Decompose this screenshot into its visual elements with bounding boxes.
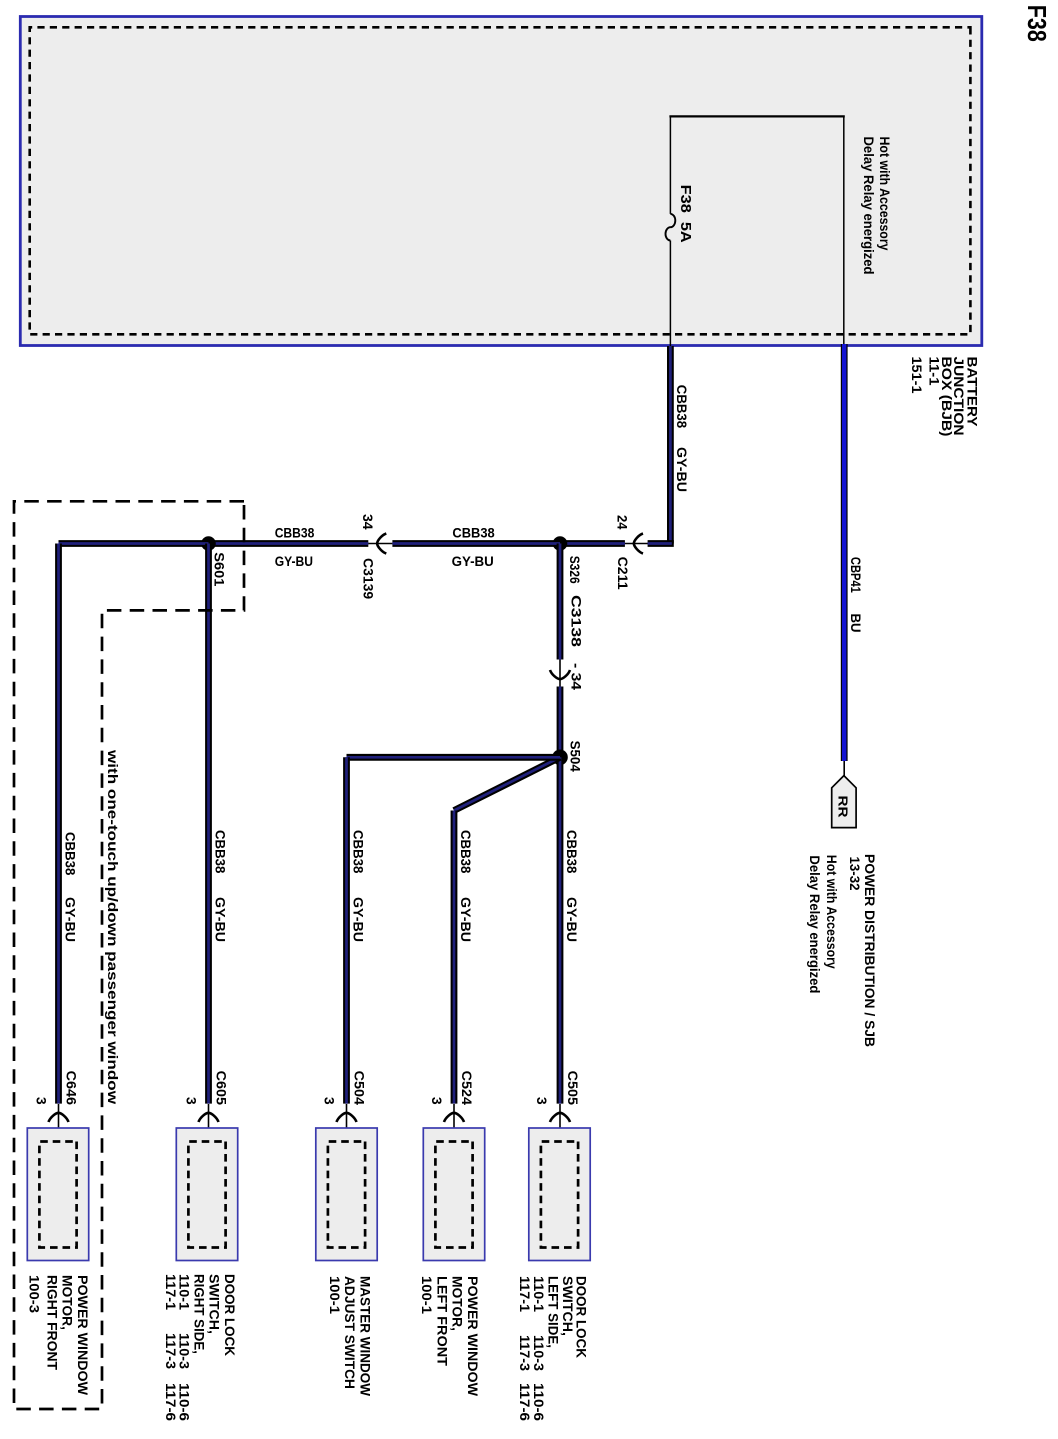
svg-text:C3138: C3138 [569, 595, 585, 647]
svg-text:CBB38: CBB38 [458, 830, 474, 873]
wire from S504 down then to master window adjust switch [347, 754, 561, 761]
svg-text:117-3: 117-3 [517, 1335, 533, 1371]
svg-text:117-1: 117-1 [163, 1274, 179, 1310]
bus segment to connector C211 [648, 540, 674, 547]
svg-text:100-1: 100-1 [419, 1276, 435, 1314]
svg-text:GY-BU: GY-BU [452, 553, 494, 569]
component: DOOR LOCK SWITCH RIGHT SIDE [176, 1128, 237, 1261]
svg-text:3: 3 [34, 1097, 50, 1105]
svg-text:GY-BU: GY-BU [564, 897, 580, 942]
svg-text:LEFT FRONT: LEFT FRONT [434, 1276, 450, 1366]
svg-text:GY-BU: GY-BU [213, 897, 229, 942]
svg-text:100-1: 100-1 [327, 1276, 343, 1314]
bus segment S326 to C3139 [392, 540, 560, 547]
svg-text:Delay Relay energized: Delay Relay energized [807, 855, 823, 993]
BJB internal line from fuse to box edge [669, 241, 671, 347]
component: DOOR LOCK SWITCH LEFT SIDE [529, 1128, 590, 1261]
svg-text:CBB38: CBB38 [674, 385, 690, 428]
svg-text:CBB38: CBB38 [351, 830, 367, 873]
wire stub into RR tag [843, 761, 845, 777]
connector C605 pin 3 [208, 1104, 210, 1142]
svg-text:3: 3 [184, 1097, 200, 1105]
svg-text:F38 5A: F38 5A [677, 185, 694, 243]
connector C504 pin 3 [346, 1104, 348, 1142]
component: MASTER WINDOW ADJUST SWITCH [316, 1128, 377, 1261]
svg-text:POWER DISTRIBUTION / SJB: POWER DISTRIBUTION / SJB [862, 854, 878, 1047]
splice S504 [552, 750, 568, 766]
svg-text:MOTOR,: MOTOR, [60, 1275, 76, 1330]
splice S601 [201, 536, 216, 551]
svg-text:117-6: 117-6 [517, 1383, 533, 1421]
connector C505 pin 3 [559, 1104, 561, 1142]
connector C524 pin 3 [453, 1104, 455, 1142]
wire from bus corner to power window motor right front [55, 544, 62, 1104]
wire from S504 (diagonal) to power window motor left front [454, 757, 560, 810]
svg-text:CBB38: CBB38 [564, 830, 580, 873]
svg-text:SWITCH,: SWITCH, [207, 1274, 223, 1334]
wire S504 to C505 (door lock switch left) [557, 757, 564, 1103]
svg-text:CBP41: CBP41 [848, 557, 864, 593]
svg-text:CBB38: CBB38 [275, 524, 315, 540]
svg-text:POWER WINDOW: POWER WINDOW [465, 1276, 481, 1397]
bus segment S601 to corner [59, 540, 209, 547]
component: POWER WINDOW MOTOR LEFT FRONT [423, 1128, 484, 1261]
wire C3138 to S504 [557, 687, 564, 758]
svg-text:Delay Relay energized: Delay Relay energized [861, 137, 877, 275]
battery junction box BJB (gray box, blue border) [20, 17, 981, 346]
svg-text:C524: C524 [459, 1071, 475, 1106]
svg-text:S326: S326 [567, 556, 583, 584]
svg-text:C211: C211 [615, 557, 631, 590]
svg-text:GY-BU: GY-BU [351, 897, 367, 942]
wire from S601 to door lock switch right side [205, 544, 212, 1104]
wire CBB38 GY-BU from fuse F38 [667, 346, 674, 544]
svg-text:11-1: 11-1 [927, 357, 943, 386]
svg-text:GY-BU: GY-BU [674, 447, 690, 492]
svg-text:DOOR LOCK: DOOR LOCK [222, 1274, 238, 1356]
svg-text:F38: F38 [1022, 5, 1052, 42]
connector C3138 (in-line, pin 34) [559, 660, 561, 687]
svg-text:MASTER WINDOW: MASTER WINDOW [358, 1276, 374, 1397]
svg-text:S504: S504 [567, 741, 583, 772]
svg-text:BU: BU [848, 614, 864, 633]
svg-text:MOTOR,: MOTOR, [450, 1276, 466, 1331]
component: POWER WINDOW MOTOR RIGHT FRONT [27, 1128, 88, 1261]
svg-text:3: 3 [534, 1097, 550, 1105]
svg-text:13-32: 13-32 [847, 857, 863, 891]
connector C646 pin 3 [58, 1104, 60, 1142]
BJB internal feed line to CBP41 [843, 116, 845, 344]
connector C211 (in-line, pin 24) [625, 543, 648, 545]
svg-text:100-3: 100-3 [26, 1275, 42, 1313]
svg-text:C646: C646 [64, 1071, 80, 1106]
svg-text:C605: C605 [214, 1071, 230, 1106]
svg-text:POWER WINDOW: POWER WINDOW [75, 1275, 91, 1396]
svg-text:3: 3 [429, 1097, 445, 1105]
svg-text:GY-BU: GY-BU [63, 897, 79, 942]
svg-text:Hot with Accessory: Hot with Accessory [877, 137, 893, 251]
dashed group outline: one-touch window option [14, 501, 244, 1409]
svg-text:C505: C505 [565, 1071, 581, 1106]
svg-text:RR: RR [836, 796, 851, 819]
svg-text:C3139: C3139 [361, 558, 377, 599]
fuse F38 5A symbol [666, 214, 676, 241]
svg-text:C504: C504 [352, 1071, 368, 1106]
svg-text:S601: S601 [212, 552, 228, 586]
svg-text:117-3: 117-3 [163, 1333, 179, 1369]
svg-text:CBB38: CBB38 [452, 524, 494, 540]
BJB internal bus bar (vertical line) [669, 115, 844, 117]
svg-text:with one-touch up/down passeng: with one-touch up/down passenger window [105, 749, 121, 1104]
svg-text:3: 3 [322, 1097, 338, 1105]
wire CBB38 from S326 toward C3138 [557, 544, 564, 660]
svg-text:34: 34 [360, 514, 376, 530]
svg-text:151-1: 151-1 [909, 357, 925, 394]
off-page connector RR [832, 776, 856, 828]
svg-text:GY-BU: GY-BU [458, 897, 474, 942]
svg-text:RIGHT FRONT: RIGHT FRONT [44, 1275, 60, 1370]
svg-text:24: 24 [615, 515, 631, 530]
bus segment C211 to S326 [560, 540, 625, 547]
svg-text:GY-BU: GY-BU [275, 553, 313, 569]
svg-text:Hot with Accessory: Hot with Accessory [824, 855, 840, 969]
splice S326 [553, 536, 568, 551]
BJB inner dashed border [30, 27, 971, 334]
svg-text:RIGHT SIDE,: RIGHT SIDE, [192, 1274, 208, 1354]
svg-text:117-6: 117-6 [163, 1383, 179, 1421]
connector C3139 (in-line, pin 34) [368, 543, 392, 545]
svg-text:ADJUST SWITCH: ADJUST SWITCH [342, 1276, 358, 1389]
svg-text:CBB38: CBB38 [63, 832, 79, 875]
BJB internal line from bus to fuse F38 [669, 116, 671, 213]
svg-text:CBB38: CBB38 [213, 830, 229, 873]
svg-text:117-1: 117-1 [517, 1276, 533, 1312]
bus segment C3139 to S601 [209, 540, 369, 547]
wire CBP41 BU (blue) from BJB to RR connector [841, 344, 848, 761]
svg-text:- 34: - 34 [569, 663, 585, 690]
